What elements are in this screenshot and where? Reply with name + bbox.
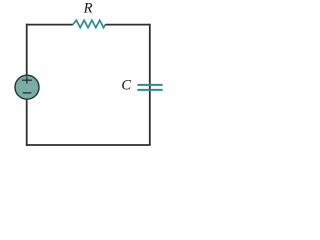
svg-text:R: R bbox=[83, 0, 93, 16]
wire top-left segment bbox=[27, 24, 73, 26]
wire right side bbox=[149, 24, 151, 145]
capacitor C top plate bbox=[137, 84, 162, 86]
wire top-right segment bbox=[105, 24, 150, 26]
voltage source + polarity mark bbox=[22, 76, 32, 83]
resistor R bbox=[73, 20, 105, 27]
voltage source - polarity mark bbox=[23, 92, 32, 94]
wire left upper (corner to source) bbox=[26, 24, 28, 76]
voltage source VS (circle body) bbox=[15, 75, 39, 99]
wire bottom bbox=[26, 144, 151, 146]
capacitor C bottom plate bbox=[137, 89, 162, 91]
svg-text:C: C bbox=[121, 77, 131, 93]
wire left lower (source to corner) bbox=[26, 99, 28, 146]
